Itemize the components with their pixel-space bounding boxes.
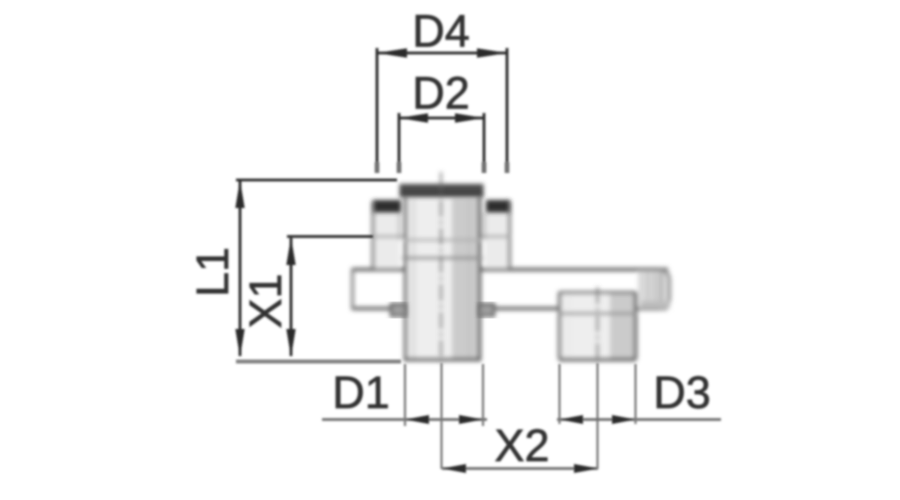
outer sleeve D4 walls xyxy=(374,212,400,268)
svg-text:D3: D3 xyxy=(653,367,711,418)
X2 dimension xyxy=(442,467,598,470)
D2 dimension xyxy=(400,117,483,120)
svg-text:X1: X1 xyxy=(240,273,291,328)
flange plate top edge xyxy=(352,268,668,272)
L1/X1 shared bottom reference line xyxy=(236,360,401,364)
right pipe D3 (covers flange lines) xyxy=(561,292,635,359)
mounting tabs xyxy=(391,304,494,316)
D4 dimension xyxy=(378,52,506,55)
main pipe body (covers flange lines) xyxy=(406,197,479,359)
svg-text:X2: X2 xyxy=(494,420,549,471)
flange right rolled end xyxy=(638,271,670,308)
outer sleeve seal bands xyxy=(374,200,402,213)
centerlines xyxy=(441,172,598,362)
D1 dimension xyxy=(322,418,487,421)
top cap dark band xyxy=(374,184,510,213)
pipe bottom edge xyxy=(404,358,481,362)
svg-text:D4: D4 xyxy=(412,6,470,57)
D3 dimension xyxy=(557,418,721,421)
sleeve bottom joint xyxy=(372,235,404,238)
L1 dimension xyxy=(239,181,242,356)
svg-text:L1: L1 xyxy=(187,247,238,297)
svg-text:D1: D1 xyxy=(332,367,390,418)
flange plate bottom edge xyxy=(352,307,667,310)
X1 dimension xyxy=(290,238,293,356)
svg-text:D2: D2 xyxy=(412,68,470,119)
flange left edge xyxy=(351,268,354,310)
pipe ring lines xyxy=(404,239,481,242)
